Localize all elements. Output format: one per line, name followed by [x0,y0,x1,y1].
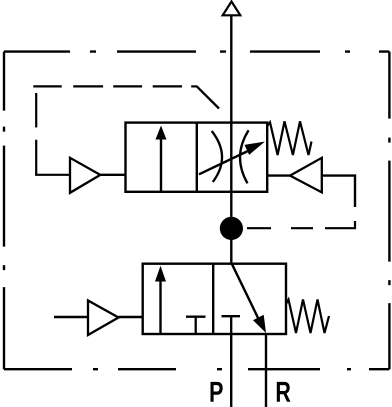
valve V2 divider [212,264,214,334]
throttle arc left [212,131,222,182]
enclosure border right (dash-dot) [388,52,390,370]
throttle arc right [240,130,249,183]
blocked port right stem [230,316,232,334]
pilot dashed wire top horizontal d2 [73,85,103,87]
pilot triangle upper left (points right) [70,158,100,193]
label P [210,382,222,402]
wire: pilot triangle to V1 left [100,174,126,176]
wire: pilot triangle to corner [322,176,355,207]
valve V1 body (upper) [126,123,268,192]
pilot dashed wire top horizontal d3 [113,85,142,87]
blocked port right bar [222,315,241,317]
pilot triangle lower left (points right) [88,301,119,336]
throttle adjust arrowhead [245,142,266,155]
valve V2 flow arrowhead [155,266,166,282]
valve V2 working arrow shaft [232,264,260,322]
spring S2 (lower) [286,300,329,334]
valve V2 working arrowhead [253,315,266,333]
wire: pilot triangle to V2 left [119,316,143,318]
throttle adjust arrow shaft [199,150,250,174]
pilot dashed wire segment [291,227,313,229]
blocked port left bar [186,316,206,318]
wire: center vertical line [230,15,232,263]
pilot dashed wire top horizontal d1 [33,85,61,87]
valve V2 flow arrow stem [159,280,161,334]
wire: R port line [265,334,267,407]
valve V1 flow arrow stem [160,137,162,192]
valve V1 flow arrowhead [156,126,167,140]
enclosure border top (dash-dot) [4,50,389,52]
pilot dashed wire segment [247,227,271,229]
wire: lower pilot line [54,316,88,318]
pilot wire diagonal [197,86,219,108]
pilot wire left corner [36,140,70,175]
label R [277,382,291,402]
node junction [220,217,243,240]
exhaust triangle [223,2,241,16]
pilot dashed wire corner segment [325,221,355,228]
enclosure border bottom (dash-dot) [4,368,389,370]
wire: P port line [230,334,232,407]
blocked port left stem [195,317,197,334]
pilot dashed wire left vertical d1 [35,93,37,127]
valve V1 divider [196,123,198,192]
pilot dashed wire top horizontal d4 [153,85,182,87]
valve V2 body (lower) [143,264,286,334]
wire: V1 right to pilot triangle [267,174,290,176]
pilot dashed wire top horizontal d5 [191,85,197,87]
spring S1 (upper) [267,121,311,155]
enclosure border left (dash-dot) [3,52,5,370]
pilot triangle right (points left) [290,158,322,193]
